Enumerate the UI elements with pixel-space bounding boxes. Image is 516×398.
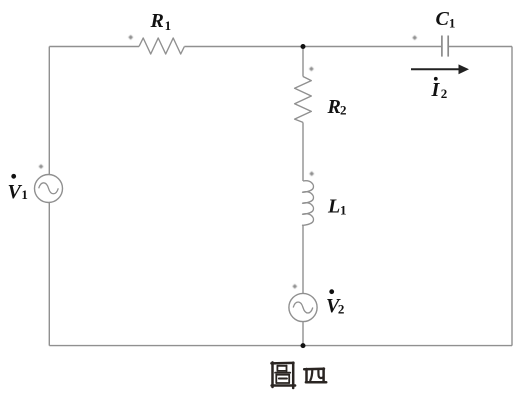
- svg-text:I: I: [431, 79, 441, 101]
- svg-text:1: 1: [449, 16, 456, 31]
- svg-text:2: 2: [441, 86, 448, 101]
- svg-text:1: 1: [165, 18, 172, 33]
- svg-text:L: L: [327, 196, 340, 218]
- svg-text:2: 2: [338, 302, 345, 317]
- svg-text:R: R: [327, 96, 341, 118]
- svg-text:R: R: [150, 10, 164, 32]
- svg-text:2: 2: [340, 103, 347, 118]
- svg-text:1: 1: [340, 203, 347, 218]
- svg-text:C: C: [436, 8, 450, 30]
- svg-text:1: 1: [21, 187, 28, 202]
- svg-text:V: V: [8, 181, 23, 203]
